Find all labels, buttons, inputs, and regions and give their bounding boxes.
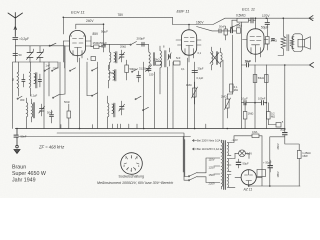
capacitor 30uF PSU3 bbox=[280, 128, 288, 137]
connector output top right bbox=[309, 16, 313, 21]
svg-text:50nF: 50nF bbox=[47, 111, 53, 115]
svg-text:250: 250 bbox=[109, 71, 114, 75]
svg-text:30µF: 30µF bbox=[198, 67, 204, 71]
diode load caps EBF bbox=[219, 29, 221, 33]
svg-text:1MΩ: 1MΩ bbox=[186, 83, 192, 87]
svg-text:50nF: 50nF bbox=[21, 135, 27, 139]
svg-text:1MΩ: 1MΩ bbox=[248, 112, 254, 116]
trimmer arrow T2 bbox=[210, 53, 220, 64]
switch bank row2 bbox=[17, 93, 98, 99]
wire right block verticals bbox=[223, 22, 285, 132]
trimmer C-var3 bbox=[39, 104, 45, 116]
potentiometer 2M volume bbox=[221, 94, 233, 118]
oscillator coil L5 bbox=[109, 65, 116, 88]
svg-text:ZF = 468 kHz: ZF = 468 kHz bbox=[38, 145, 65, 150]
trimmer C osc1 bbox=[119, 50, 125, 62]
capacitor 0,1uF coupling bbox=[241, 97, 255, 106]
wire screen divider bbox=[63, 41, 65, 62]
svg-text:2MΩ: 2MΩ bbox=[221, 95, 227, 99]
IF transformer T1 winding b bbox=[160, 46, 171, 73]
svg-text:78V: 78V bbox=[118, 13, 125, 17]
resistor box2 top bbox=[174, 61, 181, 65]
svg-text:300: 300 bbox=[20, 98, 25, 102]
svg-text:50µF: 50µF bbox=[243, 162, 250, 166]
wire mains leads bbox=[183, 137, 185, 177]
terminal box a bbox=[276, 123, 281, 128]
fuse F1 bbox=[231, 130, 262, 143]
svg-text:MΩ: MΩ bbox=[271, 115, 275, 119]
resistor 0,2M lower right bbox=[267, 112, 271, 120]
wire ground bus bbox=[15, 128, 285, 130]
svg-text:Braun: Braun bbox=[12, 165, 26, 171]
resistor box 25k top bbox=[156, 62, 162, 66]
wire antenna bus bbox=[15, 46, 64, 68]
svg-text:Sockelschaltung: Sockelschaltung bbox=[119, 174, 145, 178]
svg-text:0,1: 0,1 bbox=[198, 51, 202, 55]
pilot lamp bbox=[231, 150, 252, 159]
wire mid verticals bbox=[60, 58, 98, 129]
capacitor C in block bbox=[22, 80, 25, 82]
svg-text:Meßinstrument 1000Ω/V, 60V bzw: Meßinstrument 1000Ω/V, 60V bzw 30V~Berei… bbox=[97, 181, 173, 185]
oscillator coil L6 bbox=[108, 96, 115, 129]
resistor R-g 0,5M bbox=[232, 14, 251, 23]
switch tone bbox=[232, 24, 241, 28]
resistor 0,1M right bbox=[230, 84, 234, 92]
svg-text:ECL 11: ECL 11 bbox=[242, 7, 255, 12]
svg-text:85V: 85V bbox=[93, 32, 100, 36]
capacitor 50nF lower bbox=[47, 110, 54, 123]
capacitor osc grid bbox=[137, 76, 141, 78]
ground symbol bbox=[14, 129, 20, 154]
capacitor 30uF mid bbox=[192, 71, 198, 73]
svg-text:Jahr 1949: Jahr 1949 bbox=[12, 178, 36, 184]
svg-text:Bei 220V Netz 0,2A tr.: Bei 220V Netz 0,2A tr. bbox=[197, 139, 224, 143]
svg-text:0,1µF: 0,1µF bbox=[31, 94, 38, 98]
capacitor 1nF below ECH bbox=[91, 57, 96, 61]
coil L2 with core bbox=[30, 71, 37, 96]
capacitor C2 in block bbox=[38, 80, 41, 82]
power transformer heater winding 2 bbox=[228, 175, 236, 188]
resistor below ECL b bbox=[265, 75, 269, 83]
wire HT rail 78V bbox=[63, 17, 196, 34]
power transformer secondary HT bbox=[228, 143, 232, 156]
resistor R osc bbox=[125, 65, 129, 73]
capacitor 10nF phono line bbox=[241, 60, 313, 68]
resistor R-k 150 bbox=[91, 41, 102, 48]
capacitor 50uF PSU bbox=[236, 159, 249, 168]
svg-text:50µF: 50µF bbox=[245, 59, 251, 63]
svg-text:260V: 260V bbox=[276, 143, 280, 149]
svg-text:220V: 220V bbox=[209, 182, 215, 186]
svg-text:30µF: 30µF bbox=[280, 128, 287, 132]
transformer tap stubs bbox=[206, 158, 220, 183]
speaker LS bbox=[293, 34, 311, 52]
trimmer C osc2 bbox=[119, 101, 125, 115]
IF transformer T2 winding a bbox=[212, 47, 223, 70]
svg-text:Bei 110/125V 0,4A tr.: Bei 110/125V 0,4A tr. bbox=[197, 147, 222, 151]
svg-text:1nF: 1nF bbox=[46, 64, 51, 68]
capacitor C input bbox=[13, 54, 18, 56]
svg-text:50µF: 50µF bbox=[101, 30, 108, 34]
oscillator coil L4 bbox=[110, 44, 117, 69]
antenna bbox=[8, 13, 23, 37]
wire EBF pins down bbox=[144, 58, 195, 129]
svg-text:160V: 160V bbox=[196, 21, 204, 25]
resistor 1M lower right bbox=[243, 112, 247, 120]
wire left block verticals bbox=[19, 62, 59, 129]
svg-text:185V: 185V bbox=[276, 171, 280, 177]
svg-text:15W: 15W bbox=[302, 154, 308, 158]
potentiometer P vol bbox=[192, 82, 198, 104]
tube V1 ECH11 bbox=[63, 31, 91, 63]
svg-text:5nF: 5nF bbox=[176, 56, 181, 60]
power transformer heater winding 1 bbox=[228, 159, 232, 172]
power transformer T-net primary bbox=[222, 140, 223, 189]
svg-text:0,8A: 0,8A bbox=[252, 130, 258, 134]
choke box bbox=[257, 170, 266, 177]
output transformer T-out bbox=[278, 18, 294, 55]
switch mains bbox=[184, 173, 214, 183]
resistor R 4M vertical bbox=[266, 37, 270, 45]
heater line 3 bbox=[57, 133, 184, 177]
IF transformer T1 winding a bbox=[146, 49, 155, 72]
svg-text:+ 50µF: + 50µF bbox=[263, 161, 272, 165]
rectifier tube AZ11 bbox=[235, 170, 262, 185]
svg-text:Super 4650 W: Super 4650 W bbox=[12, 171, 46, 177]
wire 160V bbox=[188, 25, 190, 30]
svg-text:0,5MΩ: 0,5MΩ bbox=[236, 14, 246, 18]
svg-text:0,1: 0,1 bbox=[181, 67, 185, 71]
svg-text:≈0,2µF: ≈0,2µF bbox=[19, 37, 29, 41]
capacitor heater bypass bbox=[14, 135, 19, 138]
svg-text:50kΩ: 50kΩ bbox=[236, 24, 242, 28]
svg-text:50: 50 bbox=[19, 53, 23, 57]
coil L1 antenna bbox=[11, 72, 19, 96]
svg-text:ECH 11: ECH 11 bbox=[71, 10, 85, 15]
svg-text:150: 150 bbox=[149, 73, 154, 77]
resistor below ECL a bbox=[253, 75, 257, 83]
svg-text:50kΩ: 50kΩ bbox=[130, 67, 136, 71]
svg-text:50nF: 50nF bbox=[219, 25, 225, 29]
capacitor C-g 10nF bbox=[251, 18, 253, 23]
capacitor +50uF PSU2 bbox=[263, 160, 273, 172]
wire ECH cathode down bbox=[91, 36, 104, 47]
wire PSU right verticals bbox=[249, 136, 300, 186]
resistor 1,25k field bbox=[285, 137, 311, 186]
svg-text:150V: 150V bbox=[209, 173, 215, 177]
wire HT rail right / 170V bbox=[196, 18, 314, 28]
coil L3 pair lower bbox=[27, 98, 35, 129]
tube socket diagram bbox=[121, 153, 143, 175]
switch bank row1 bbox=[44, 68, 98, 72]
capacitor small right of ECL bbox=[272, 39, 275, 41]
svg-text:-1,2V: -1,2V bbox=[232, 138, 238, 142]
tuning gang capacitor C-var1 bbox=[27, 46, 34, 62]
tube V3 ECL11 bbox=[243, 29, 269, 62]
capacitor C-ant 0,2nF bbox=[13, 37, 29, 46]
switch S-ant bbox=[50, 43, 56, 46]
svg-text:200pF: 200pF bbox=[137, 37, 146, 41]
tube V2 EBF11 bbox=[176, 30, 201, 62]
svg-text:MΩ: MΩ bbox=[234, 88, 238, 92]
tuning gang capacitor C-var2 bbox=[37, 46, 44, 62]
switch padder bbox=[131, 42, 137, 45]
svg-text:50kΩ: 50kΩ bbox=[258, 76, 264, 80]
wire left block frame bbox=[13, 62, 59, 129]
svg-text:25kΩ: 25kΩ bbox=[154, 58, 160, 62]
power transformer core bbox=[224, 141, 226, 190]
svg-text:AZ 11: AZ 11 bbox=[243, 188, 253, 192]
svg-text:EBF 11: EBF 11 bbox=[177, 9, 190, 14]
switch osc row bbox=[133, 69, 138, 72]
svg-text:240V: 240V bbox=[86, 19, 94, 23]
svg-text:0,1µF: 0,1µF bbox=[197, 76, 204, 80]
svg-text:0,1µF: 0,1µF bbox=[241, 97, 248, 101]
bus ticks bbox=[61, 124, 206, 129]
svg-text:20kΩ: 20kΩ bbox=[120, 45, 126, 49]
svg-text:31,5Ω: 31,5Ω bbox=[139, 67, 146, 71]
wire 240V anode rail bbox=[76, 24, 104, 29]
svg-text:100nF: 100nF bbox=[258, 97, 266, 101]
svg-text:50nF: 50nF bbox=[64, 100, 70, 104]
svg-text:170V: 170V bbox=[262, 14, 270, 18]
heater line 2 bbox=[19, 136, 191, 138]
resistor R mid block bbox=[67, 111, 71, 118]
capacitor 100nF coupling2 bbox=[255, 97, 266, 106]
